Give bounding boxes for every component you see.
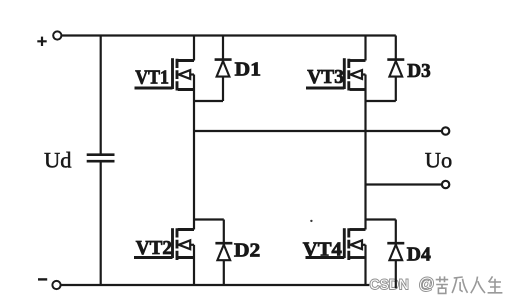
svg-text:Uo: Uo [425, 148, 452, 173]
wire upper output line [194, 130, 442, 132]
upper output terminal [442, 127, 449, 134]
transistor VT1 [135, 58, 195, 90]
transistor VT2 [134, 228, 194, 260]
top rail wire [62, 34, 396, 36]
diode D3 [387, 36, 404, 102]
wire right leg mid (VT3 source to VT4 drain branch) [364, 75, 366, 220]
scan speck [310, 220, 312, 222]
lower output terminal [442, 181, 449, 188]
wire lower output line [366, 183, 442, 185]
diode D4 [387, 220, 404, 289]
wire D3 anode join [366, 100, 396, 102]
transistor VT3 [306, 58, 366, 90]
svg-text:VT2: VT2 [136, 237, 172, 259]
svg-text:D3: D3 [407, 60, 431, 82]
diode D2 [215, 220, 232, 286]
wire VT2 source to bottom rail [193, 245, 195, 285]
hanzi gua [452, 277, 467, 293]
hanzi ren [471, 277, 485, 294]
wire VT4 source to bottom rail [364, 245, 366, 285]
svg-text:D1: D1 [235, 59, 261, 81]
hanzi ku [436, 276, 449, 293]
svg-text:VT3: VT3 [307, 66, 344, 88]
watermark CSDN @kuguarensheng [370, 276, 503, 293]
wire VT2 drain connection [193, 220, 195, 230]
plus terminal [37, 31, 61, 46]
svg-text:D2: D2 [234, 240, 260, 262]
watermark halo [369, 275, 516, 296]
hanzi sheng [488, 276, 503, 292]
bottom rail wire [61, 284, 396, 286]
wire left leg drain VT1 [193, 36, 195, 61]
wire VT4/D4 top join [366, 218, 396, 220]
capacitor C (dc bus) [87, 36, 115, 286]
minus terminal [38, 279, 61, 289]
diode D1 [215, 36, 232, 102]
svg-text:VT1: VT1 [135, 66, 169, 88]
svg-text:D4: D4 [407, 244, 431, 266]
wire D1 anode join [194, 100, 223, 102]
wire right leg drain VT3 [364, 36, 366, 61]
wire VT2/D2 top join [194, 218, 224, 220]
svg-text:VT4: VT4 [303, 239, 342, 261]
svg-text:CSDN: CSDN [370, 277, 409, 292]
wire left leg mid (VT1 source to VT2 drain branch) [193, 75, 195, 220]
transistor VT4 [306, 228, 366, 260]
wire VT4 drain connection [364, 220, 366, 230]
svg-text:@: @ [419, 276, 435, 293]
svg-text:Ud: Ud [44, 147, 72, 172]
